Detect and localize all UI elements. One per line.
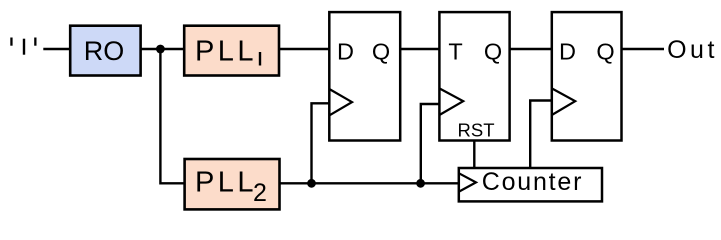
U1 clock triangle <box>329 89 352 115</box>
svg-text:D: D <box>337 38 354 64</box>
svg-text:D: D <box>559 38 576 64</box>
node '1' constant input <box>10 38 36 55</box>
svg-text:Q: Q <box>484 38 502 64</box>
svg-text:PLL: PLL <box>195 35 257 67</box>
wire U1 Q to U2 T <box>400 48 439 50</box>
Counter clock triangle <box>459 173 476 191</box>
svg-text:Counter: Counter <box>482 168 584 196</box>
wire node C up to U2 clock <box>421 104 440 183</box>
junction node A <box>156 45 165 54</box>
block Counter <box>459 168 602 201</box>
flip-flop U2 body <box>439 12 509 140</box>
U2 clock triangle <box>439 88 463 115</box>
svg-text:2: 2 <box>253 179 267 207</box>
wire U2 Q to U3 D <box>510 48 552 50</box>
wire Counter output up to U3 clock <box>530 101 552 169</box>
wire RO output to PLL1 input <box>141 48 185 50</box>
svg-text:Q: Q <box>372 38 390 64</box>
wire PLL2 output rail to Counter <box>280 182 459 184</box>
wire U3 Q to Out <box>622 48 665 50</box>
block RO ring oscillator <box>70 26 140 76</box>
svg-text:PLL: PLL <box>195 167 257 199</box>
junction node B <box>307 179 316 188</box>
svg-text:RO: RO <box>84 36 125 66</box>
wire node A down to PLL2 input <box>160 49 184 183</box>
svg-text:Out: Out <box>667 36 718 64</box>
U3 clock triangle <box>552 88 575 115</box>
junction node C <box>416 179 425 188</box>
wire PLL1 output to U1 D <box>279 48 329 50</box>
flip-flop U3 body <box>552 12 622 140</box>
block PLL2 <box>185 159 280 209</box>
flip-flop U1 body <box>329 12 400 140</box>
svg-text:Q: Q <box>596 38 614 64</box>
svg-text:T: T <box>448 38 462 64</box>
wire node B up to U1 clock <box>312 103 330 183</box>
svg-text:RST: RST <box>458 119 495 140</box>
wire U2 RST down to Counter <box>473 141 475 169</box>
block PLL1 <box>184 26 279 76</box>
wire '1' to RO input <box>43 48 70 50</box>
